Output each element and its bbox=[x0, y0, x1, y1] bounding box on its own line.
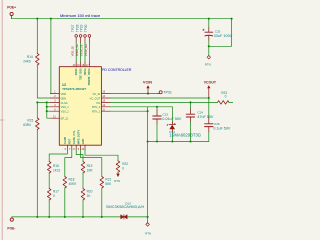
pin 15 VC_IN line bbox=[101, 93, 110, 95]
junction bottom net C24 bbox=[189, 140, 191, 142]
svg-text:R14: R14 bbox=[27, 55, 33, 59]
svg-text:1SMA6029BT3G: 1SMA6029BT3G bbox=[169, 132, 201, 137]
svg-text:47nF 50V: 47nF 50V bbox=[197, 115, 213, 119]
svg-text:33uF 100V: 33uF 100V bbox=[214, 34, 233, 38]
junction rail R21 column bbox=[101, 216, 103, 218]
capacitor C24 bbox=[186, 114, 194, 117]
resistor R21 bbox=[100, 177, 104, 189]
wire VSS_1 tap bbox=[47, 106, 51, 108]
pin 9 bottom line bbox=[80, 145, 82, 150]
svg-text:U2: U2 bbox=[62, 83, 66, 87]
power symbol VCIN arrow bbox=[146, 85, 149, 93]
wire R22 to RTN arrow bbox=[117, 172, 119, 174]
pin 6 bottom line bbox=[66, 145, 68, 150]
svg-text:R16: R16 bbox=[53, 164, 59, 168]
svg-text:POE-: POE- bbox=[7, 226, 15, 230]
test point TP28 pin bbox=[80, 37, 82, 42]
pin C24 top stub bbox=[190, 109, 192, 114]
power symbol RTN diamond bottom bbox=[146, 223, 150, 227]
connector pin POE+ circle bbox=[10, 12, 13, 15]
junction C23 tap bbox=[156, 106, 158, 108]
junction bottom net C23 bbox=[156, 140, 158, 142]
svg-text:C25: C25 bbox=[215, 29, 221, 33]
wire VSS_2 tap bbox=[47, 110, 51, 112]
junction CLSA R15 column bbox=[36, 101, 38, 103]
pin 2 DEN line bbox=[50, 97, 59, 99]
svg-text:40K9: 40K9 bbox=[69, 182, 77, 186]
power symbol RTN diamond top bbox=[207, 56, 210, 59]
pin 11 RTN_1 line bbox=[101, 110, 110, 112]
svg-text:R21: R21 bbox=[105, 178, 111, 182]
wire R14 to DEN pin bbox=[37, 65, 50, 98]
wire VC_IN row bbox=[110, 93, 157, 95]
svg-text:VCOUT: VCOUT bbox=[204, 80, 217, 84]
svg-text:RTN: RTN bbox=[205, 62, 211, 66]
wire R16 to R17 bbox=[48, 173, 50, 189]
pin 18 top line bbox=[84, 62, 86, 66]
junction top rail C25 column bbox=[208, 18, 210, 20]
wire PG row bbox=[110, 101, 217, 103]
svg-text:R22: R22 bbox=[122, 162, 128, 166]
svg-text:63R4: 63R4 bbox=[23, 123, 31, 127]
resistor R14 bbox=[36, 54, 40, 66]
test point TP27 pin bbox=[75, 37, 77, 42]
junction bottom net RTN column bbox=[147, 140, 149, 142]
wire CLSA row bbox=[37, 101, 50, 103]
wire C24 column lower bbox=[190, 122, 192, 142]
junction VSS_1 bbox=[46, 106, 48, 108]
svg-text:0: 0 bbox=[225, 95, 227, 99]
junction C25 bottom bbox=[208, 45, 210, 47]
pin 12 RTN_2 line bbox=[101, 106, 110, 108]
svg-text:R19: R19 bbox=[87, 164, 93, 168]
junction top rail VDD column bbox=[50, 18, 52, 20]
pin C25 top stub bbox=[208, 27, 210, 32]
svg-text:TP27: TP27 bbox=[71, 24, 75, 32]
pin C23 top stub bbox=[156, 110, 158, 116]
pin 8 bottom line bbox=[75, 145, 77, 150]
connector pin POE- stub bbox=[11, 217, 13, 218]
capacitor C25 polarized bbox=[203, 29, 213, 36]
wire D14 column upper bbox=[171, 107, 173, 122]
wire VSS column bbox=[47, 102, 51, 118]
pin 7 bottom line bbox=[71, 145, 73, 150]
pin 17 top line bbox=[88, 62, 90, 66]
junction bottom net D14 bbox=[171, 140, 173, 142]
wire D14 column lower bbox=[171, 132, 173, 142]
resistor R19 bbox=[81, 162, 85, 174]
junction C24 tap bbox=[189, 101, 191, 103]
svg-text:TP31: TP31 bbox=[163, 90, 172, 94]
pin C25 bottom stub bbox=[208, 36, 210, 41]
wire pin9 to R21 column bbox=[81, 150, 102, 177]
test point TP31 circle bbox=[159, 91, 162, 94]
svg-text:0.1uF 50V: 0.1uF 50V bbox=[213, 127, 230, 131]
svg-text:C26: C26 bbox=[214, 122, 220, 126]
wire TP27 to IC pin 20 bbox=[75, 43, 77, 63]
power symbol VCOUT arrow bbox=[207, 85, 210, 98]
resistor R23 horizontal bbox=[218, 101, 230, 105]
diode D13 TVS bidirectional bbox=[121, 215, 128, 220]
resistor R22 bbox=[116, 161, 120, 173]
power symbol RTN arrow bbox=[116, 174, 119, 177]
wire POE- rail bbox=[12, 216, 148, 218]
wire R23 right bbox=[229, 101, 233, 103]
pin 3 CLSA line bbox=[50, 101, 59, 103]
pin 4 VSS_1 line bbox=[50, 106, 59, 108]
wire pin7 to R18 column bbox=[65, 150, 72, 177]
svg-text:TPS2373-4RGWT: TPS2373-4RGWT bbox=[62, 87, 86, 91]
svg-text:1K21: 1K21 bbox=[53, 168, 61, 172]
resistor R16 bbox=[47, 162, 51, 174]
svg-text:24K9: 24K9 bbox=[23, 60, 31, 64]
wire capacitor bottom net bbox=[148, 141, 209, 143]
junction RTN_1 bbox=[147, 110, 149, 112]
wire R20 to rail bbox=[82, 200, 84, 217]
svg-text:R17: R17 bbox=[53, 190, 59, 194]
svg-text:10R: 10R bbox=[87, 168, 94, 172]
wire R21 to rail bbox=[101, 188, 103, 217]
pin 20 top line bbox=[75, 62, 77, 66]
capacitor C26 bbox=[205, 124, 213, 127]
pin C26 top stub bbox=[208, 119, 210, 124]
resistor R18 bbox=[63, 177, 67, 189]
connector pin POE+ stub bbox=[11, 16, 13, 19]
connector pin POE- circle bbox=[10, 218, 13, 221]
wire RTN_1 to RTN column bbox=[110, 110, 147, 112]
svg-text:POE+: POE+ bbox=[7, 6, 16, 10]
wire VC_OUT row bbox=[110, 97, 209, 99]
svg-text:RTN: RTN bbox=[145, 231, 151, 235]
wire RTN_2 stub to C23 and D14 bbox=[148, 106, 173, 108]
junction top rail right end bbox=[231, 18, 233, 20]
svg-text:0: 0 bbox=[122, 167, 124, 171]
svg-text:TP29: TP29 bbox=[80, 24, 84, 32]
wire C25 column lower bbox=[208, 41, 210, 56]
junction rail R18 column bbox=[64, 216, 66, 218]
pin 14 VC_OUT line bbox=[101, 97, 110, 99]
test point TP30 pin bbox=[88, 37, 90, 42]
junction rail RTN column bbox=[147, 216, 149, 218]
test point TP31 pin bbox=[157, 93, 159, 95]
wire pin8 to R19 column bbox=[76, 150, 83, 162]
wire C23 column lower bbox=[156, 124, 158, 142]
capacitor C23 bbox=[153, 116, 161, 119]
pin 13 PG line bbox=[101, 101, 110, 103]
pin C23 bottom stub bbox=[156, 119, 158, 124]
junction rail R15 column bbox=[36, 216, 38, 218]
junction top rail R14 column bbox=[36, 18, 38, 20]
wire POE+ top rail bbox=[12, 18, 232, 20]
junction rail R20 column bbox=[82, 216, 84, 218]
resistor R17 bbox=[47, 189, 51, 201]
svg-text:TP30: TP30 bbox=[84, 24, 88, 32]
test point TP29 circle bbox=[84, 35, 87, 38]
svg-text:C23: C23 bbox=[162, 112, 168, 116]
junction CLSA VSS column bbox=[46, 101, 48, 103]
svg-text:R15: R15 bbox=[27, 119, 33, 123]
wire C24 column upper bbox=[190, 102, 192, 109]
wire pin10 to R22 column bbox=[85, 150, 118, 161]
wire C26 column upper bbox=[208, 98, 210, 119]
wire R15 to POE- rail bbox=[36, 129, 38, 217]
test point TP27 circle bbox=[75, 35, 78, 38]
resistor R20 bbox=[81, 189, 85, 201]
junction VSS_2 bbox=[46, 110, 48, 112]
wire VDD column bbox=[49, 19, 52, 94]
pin 21 EP_21 line bbox=[50, 117, 59, 119]
svg-text:Minimum 150 mil trace: Minimum 150 mil trace bbox=[60, 13, 101, 18]
wire top rail to R14 bbox=[36, 19, 38, 54]
pin C26 bottom stub bbox=[208, 127, 210, 132]
test point TP28 circle bbox=[79, 35, 82, 38]
junction VCIN tap bbox=[147, 93, 149, 95]
svg-text:56K: 56K bbox=[105, 182, 112, 186]
pin C24 bottom stub bbox=[190, 117, 192, 122]
wire C25 column upper bbox=[208, 19, 210, 28]
wire right edge loop bbox=[209, 19, 232, 47]
wire C26 column lower bbox=[208, 132, 210, 142]
svg-text:R20: R20 bbox=[87, 190, 93, 194]
pin 1 VDD line bbox=[50, 93, 59, 95]
wire pin6 to R16 column bbox=[49, 150, 67, 162]
svg-text:TP28: TP28 bbox=[75, 24, 79, 32]
svg-text:SMC3K58CAHM3,A/H: SMC3K58CAHM3,A/H bbox=[106, 205, 145, 209]
svg-text:VCIN: VCIN bbox=[143, 80, 152, 84]
wire C23 column upper bbox=[156, 107, 158, 110]
wire TP29 to IC pin 18 bbox=[84, 43, 86, 63]
zener diode D14 bbox=[167, 122, 175, 132]
svg-text:R18: R18 bbox=[69, 178, 75, 182]
wire TP28 to IC pin 16 bbox=[80, 43, 82, 63]
resistor R15 bbox=[36, 118, 40, 130]
pin 10 bottom line bbox=[84, 145, 86, 150]
test point TP30 circle bbox=[88, 35, 91, 38]
svg-text:RTN: RTN bbox=[114, 179, 120, 183]
pin 16 top line bbox=[80, 62, 82, 66]
svg-text:0: 0 bbox=[53, 194, 55, 198]
wire RTN_2 elbow to RTN column bbox=[110, 107, 147, 217]
pin 5 VSS_2 line bbox=[50, 110, 59, 112]
IC U2 TPS2373 body bbox=[59, 67, 101, 146]
wire R15 column upper bbox=[36, 102, 38, 118]
test point TP29 pin bbox=[84, 37, 86, 42]
wire R18 to rail bbox=[64, 188, 66, 217]
junction rail R17 column bbox=[48, 216, 50, 218]
svg-text:C24: C24 bbox=[197, 110, 203, 114]
junction VCOUT tap bbox=[208, 97, 210, 99]
wire R19 to R20 bbox=[82, 173, 84, 189]
wire rail to RTN symbol bbox=[147, 217, 149, 223]
svg-text:PD CONTROLLER: PD CONTROLLER bbox=[102, 68, 132, 72]
wire TP30 to IC pin 17 bbox=[88, 43, 90, 63]
wire R17 to rail bbox=[48, 200, 50, 217]
